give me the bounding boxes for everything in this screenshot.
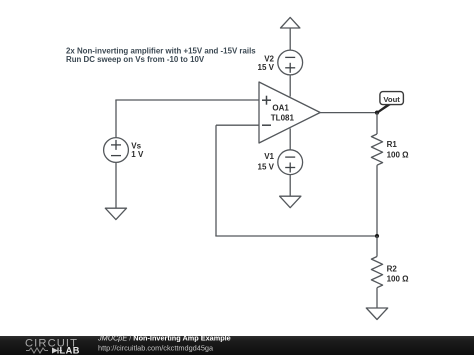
footer bar xyxy=(0,336,474,355)
wire op-amp V- pin to V1 xyxy=(289,128,291,149)
junction node at Vout xyxy=(375,111,379,115)
svg-text:1 V: 1 V xyxy=(131,150,144,159)
output wire xyxy=(320,112,377,114)
svg-text:Vout: Vout xyxy=(383,95,400,104)
svg-text:Run DC sweep on Vs from -10 to: Run DC sweep on Vs from -10 to 10V xyxy=(66,55,205,64)
ground symbol (V1) xyxy=(280,196,301,208)
wire V1 to ground xyxy=(289,175,291,197)
svg-text:100 Ω: 100 Ω xyxy=(387,151,410,160)
op-amp OA1 xyxy=(259,82,320,143)
voltage source V1 xyxy=(278,150,303,175)
ground symbol (R2) xyxy=(366,308,387,320)
label R2 xyxy=(387,264,410,283)
op-amp - input mark xyxy=(262,124,271,126)
node label Vout xyxy=(380,92,404,105)
wire arrow to V2 xyxy=(289,28,291,50)
wire V2 to op-amp V+ pin xyxy=(289,75,291,97)
svg-text:R1: R1 xyxy=(387,140,398,149)
resistor R2 xyxy=(371,257,382,288)
svg-text:100 Ω: 100 Ω xyxy=(387,274,410,283)
svg-text:15 V: 15 V xyxy=(258,162,275,171)
feedback vertical wire xyxy=(215,125,217,236)
wire R2 to ground xyxy=(376,288,378,308)
wire Vs top vertical xyxy=(115,100,117,138)
svg-text:2x Non-inverting amplifier wit: 2x Non-inverting amplifier with +15V and… xyxy=(66,46,256,55)
junction node feedback/R2 xyxy=(375,234,379,238)
positive supply arrow (V2 rail) xyxy=(281,17,300,28)
label R1 xyxy=(387,140,410,160)
label Vs xyxy=(131,141,144,159)
svg-text:V1: V1 xyxy=(264,152,274,161)
net flag wedge (Vout) xyxy=(376,105,390,114)
feedback wire to inverting input xyxy=(216,124,259,126)
wire Vs bottom to ground xyxy=(115,162,117,208)
label V2 xyxy=(258,55,275,73)
resistor R1 xyxy=(371,134,382,165)
svg-text:R2: R2 xyxy=(387,264,398,273)
annotation note text xyxy=(66,46,256,64)
feedback bottom wire xyxy=(215,235,377,237)
logo diode xyxy=(52,348,58,354)
svg-text:JMUCpE / Non-Inverting Amp Exa: JMUCpE / Non-Inverting Amp Example xyxy=(97,333,231,342)
logo resistor zigzag xyxy=(26,348,48,353)
label V1 xyxy=(258,152,275,172)
voltage source Vs xyxy=(104,138,129,163)
svg-text:LAB: LAB xyxy=(60,346,80,355)
svg-text:OA1: OA1 xyxy=(272,104,289,113)
svg-text:V2: V2 xyxy=(264,55,274,64)
wire R1 to junction xyxy=(376,165,378,236)
op-amp + input mark xyxy=(262,96,271,105)
svg-text:http://circuitlab.com/ckcttmdg: http://circuitlab.com/ckcttmdgd45ga xyxy=(98,343,214,352)
ground symbol (Vs) xyxy=(105,208,126,219)
wire to op-amp non-inverting input xyxy=(115,99,259,101)
wire Vout to R1 xyxy=(376,113,378,134)
label OA1 TL081 xyxy=(271,104,295,123)
svg-text:TL081: TL081 xyxy=(271,114,295,123)
svg-text:15 V: 15 V xyxy=(258,63,275,72)
voltage source V2 xyxy=(278,50,303,75)
wire junction to R2 xyxy=(376,236,378,257)
